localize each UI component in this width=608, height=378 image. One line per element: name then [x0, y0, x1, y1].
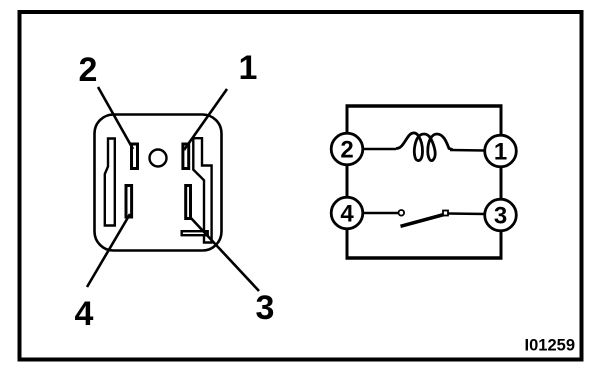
- terminal circle 1: [485, 135, 517, 167]
- mounting hole: [150, 150, 167, 167]
- right keyway: [193, 138, 211, 242]
- bottom key slot: [182, 231, 208, 235]
- leader line to pin 2: [98, 87, 133, 149]
- svg-text:1: 1: [494, 139, 507, 166]
- terminal circle 4: [331, 197, 363, 229]
- wire bottom horizontal: [346, 256, 503, 259]
- wire middle right vertical: [500, 166, 503, 200]
- wire bottom right vertical: [500, 230, 503, 258]
- svg-text:1: 1: [239, 49, 258, 87]
- svg-text:I01259: I01259: [525, 337, 575, 355]
- wire middle left vertical: [346, 164, 349, 198]
- svg-text:2: 2: [79, 51, 98, 89]
- wire top right vertical: [500, 106, 503, 135]
- pin 1 slot: [183, 144, 189, 169]
- terminal circle 3: [485, 199, 517, 231]
- switch fixed contact square: [443, 211, 448, 216]
- wire coil right: [450, 149, 485, 152]
- switch fixed contact circle: [399, 210, 405, 216]
- wire bottom left vertical: [346, 228, 349, 258]
- svg-text:2: 2: [340, 137, 353, 164]
- leader line to pin 4: [87, 214, 130, 287]
- relay coil: [396, 133, 453, 161]
- svg-text:4: 4: [340, 201, 354, 228]
- left key slot: [105, 139, 115, 226]
- svg-text:4: 4: [75, 295, 94, 333]
- svg-text:3: 3: [256, 289, 275, 327]
- wire switch left: [363, 212, 398, 215]
- svg-text:3: 3: [494, 203, 507, 230]
- pin 4 slot: [126, 186, 132, 218]
- wire switch right: [448, 212, 485, 215]
- leader line to pin 1: [184, 89, 227, 150]
- wire top left vertical: [346, 106, 349, 133]
- wire top horizontal: [346, 104, 503, 107]
- pin 3 slot: [186, 186, 191, 219]
- pin 2 slot: [132, 144, 138, 169]
- terminal circle 2: [331, 133, 363, 165]
- wire coil left: [363, 148, 396, 151]
- switch blade: [401, 215, 445, 227]
- relay connector outline: [95, 115, 222, 251]
- leader line to pin 3: [190, 217, 259, 291]
